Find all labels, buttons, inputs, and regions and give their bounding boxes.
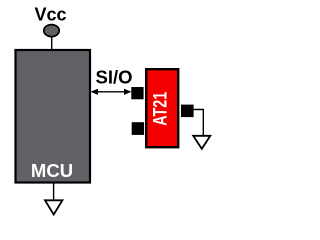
IC AT21 bbox=[146, 69, 178, 147]
svg-text:AT21: AT21 bbox=[151, 91, 172, 125]
pin SI/O (AT21 upper-left) bbox=[131, 87, 143, 99]
MCU block bbox=[16, 50, 91, 183]
svg-text:MCU: MCU bbox=[31, 160, 73, 181]
ground (below MCU) bbox=[45, 200, 62, 214]
pin GND (AT21 right) bbox=[181, 105, 194, 118]
pin (AT21 lower-left) bbox=[132, 122, 144, 135]
Vcc terminal (supply dot) bbox=[44, 25, 59, 37]
SI/O bus wire (double-headed arrow) bbox=[91, 89, 132, 95]
svg-text:Vcc: Vcc bbox=[34, 5, 66, 25]
ground (right of AT21) bbox=[193, 136, 210, 149]
wire Vcc to MCU bbox=[51, 36, 53, 49]
wire MCU to ground bbox=[53, 183, 55, 201]
svg-text:SI/O: SI/O bbox=[96, 67, 133, 88]
wire AT21 to ground bbox=[194, 110, 204, 137]
